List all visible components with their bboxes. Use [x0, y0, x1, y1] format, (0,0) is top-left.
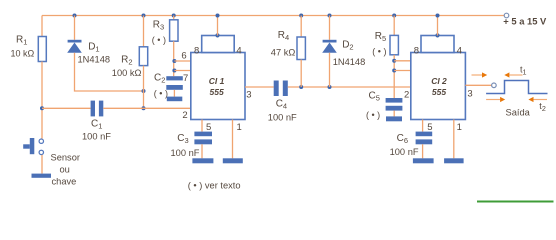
- capacitor C4: [274, 81, 279, 97]
- svg-text:6: 6: [181, 50, 186, 61]
- ground under switch: [32, 174, 52, 178]
- svg-text:100 nF: 100 nF: [390, 147, 419, 157]
- wire pin 5 CI1: [201, 120, 203, 132]
- switch S1 contact bottom: [39, 150, 43, 154]
- pin 8/4 bridge CI2: [421, 36, 454, 53]
- dimension arrow t1 left: [472, 74, 483, 76]
- wire R2 top lead: [143, 16, 145, 47]
- node +V terminal: [504, 13, 509, 18]
- svg-text:3: 3: [467, 89, 472, 100]
- svg-text:8: 8: [194, 46, 199, 57]
- resistor R5: [390, 35, 398, 54]
- dimension arrow t1 right: [504, 72, 509, 77]
- svg-text:( • ): ( • ): [154, 88, 168, 98]
- node junction R1/C1: [40, 106, 44, 110]
- wire pin 6 CI2: [394, 60, 411, 62]
- capacitor C1: [91, 101, 95, 117]
- node junction D1 top: [73, 14, 77, 18]
- svg-text:R3: R3: [153, 20, 164, 32]
- wire R5 bottom lead to C5: [393, 55, 395, 98]
- wire R2 bottom lead: [143, 66, 145, 109]
- wire C2 to ground: [173, 90, 175, 97]
- node junction R5 top: [392, 14, 396, 18]
- svg-text:CI 2: CI 2: [431, 76, 447, 86]
- svg-text:1N4148: 1N4148: [78, 55, 111, 65]
- dimension arrow t2 left: [486, 99, 500, 101]
- svg-text:( • ): ( • ): [366, 110, 380, 120]
- svg-text:100 nF: 100 nF: [268, 112, 297, 122]
- node junction pin7 CI1: [172, 69, 176, 73]
- svg-text:R2: R2: [121, 55, 132, 67]
- wire D2 top lead: [329, 16, 331, 40]
- svg-text:4: 4: [457, 46, 462, 57]
- wire rail to bridge CI2: [437, 16, 439, 36]
- svg-text:8: 8: [414, 46, 419, 57]
- wire C3 to ground: [201, 144, 203, 158]
- waveform output pulse: [486, 81, 547, 94]
- wire D2 bottom lead: [329, 53, 331, 87]
- svg-text:( • ): ( • ): [372, 46, 386, 56]
- svg-text:1: 1: [457, 122, 462, 133]
- switch S1 contact top: [39, 139, 43, 143]
- wire pin 6 CI1: [174, 60, 190, 62]
- wire trigger line to C1: [42, 107, 91, 109]
- op-amp CI2 555 body: [411, 53, 466, 120]
- wire pin 5 CI2: [422, 120, 424, 132]
- node junction D2 top: [328, 14, 332, 18]
- resistor R1: [38, 37, 46, 62]
- wire C5 to ground: [393, 111, 395, 117]
- svg-text:C4: C4: [276, 98, 287, 110]
- svg-text:CI 1: CI 1: [209, 76, 225, 86]
- diode D2: [323, 40, 337, 43]
- wire R1 bottom lead: [41, 62, 43, 139]
- resistor R3: [170, 20, 178, 41]
- dimension arrow t2 right: [528, 97, 533, 102]
- svg-text:D2: D2: [342, 39, 353, 51]
- svg-text:5: 5: [427, 122, 432, 133]
- svg-text:t2: t2: [539, 101, 546, 113]
- svg-text:4: 4: [236, 46, 241, 57]
- green separator line: [477, 201, 554, 203]
- svg-text:C2: C2: [154, 73, 165, 85]
- resistor R2: [139, 47, 147, 66]
- svg-text:47 kΩ: 47 kΩ: [271, 47, 296, 57]
- wire switch to ground: [41, 155, 43, 174]
- wire pin 7 CI1: [174, 70, 190, 72]
- svg-text:Sensor: Sensor: [51, 153, 80, 163]
- node junction pin6 CI2: [392, 59, 396, 63]
- node output terminal: [492, 83, 497, 88]
- svg-text:3: 3: [246, 89, 251, 100]
- svg-text:1N4148: 1N4148: [333, 57, 366, 67]
- wire pin 1 CI1: [232, 120, 234, 159]
- svg-text:C3: C3: [177, 133, 188, 145]
- node junction bridge CI1 top: [215, 33, 219, 37]
- ground under C3: [192, 158, 213, 163]
- wire pin 3 CI1: [245, 86, 274, 88]
- capacitor C6: [416, 132, 433, 137]
- svg-text:555: 555: [210, 87, 224, 97]
- switch S1 plunger: [30, 138, 35, 154]
- node junction D2 bottom: [328, 85, 332, 89]
- svg-text:D1: D1: [88, 42, 99, 54]
- svg-text:7: 7: [183, 73, 188, 84]
- node junction R4 bottom: [299, 85, 303, 89]
- svg-text:2: 2: [404, 90, 409, 101]
- wire D1 top lead: [74, 16, 76, 40]
- node junction R2/trigger line: [142, 106, 146, 110]
- svg-text:100 nF: 100 nF: [82, 131, 111, 141]
- ground under C5: [386, 116, 402, 121]
- node junction pin6 CI1: [172, 59, 176, 63]
- svg-text:555: 555: [432, 87, 446, 97]
- wire rail to bridge CI1: [217, 16, 219, 36]
- node junction R3 top: [172, 14, 176, 18]
- svg-text:R1: R1: [16, 35, 27, 47]
- wire D1 bottom lead: [75, 53, 144, 91]
- ground under pin 1 CI1: [223, 158, 243, 163]
- wire R4 bottom lead: [300, 60, 302, 88]
- svg-text:Saída: Saída: [506, 108, 531, 118]
- wire R1 top lead: [41, 16, 43, 37]
- wire R3 bottom lead to C2: [173, 41, 175, 76]
- svg-text:C5: C5: [369, 91, 380, 103]
- wire R3 top lead: [173, 16, 175, 20]
- wire C4 to pin 2 CI2: [288, 86, 411, 88]
- diode D1: [68, 40, 82, 43]
- op-amp CI1 555 body: [191, 53, 245, 120]
- svg-text:2: 2: [182, 110, 187, 121]
- ground under C6: [413, 158, 434, 163]
- ground under C2: [167, 97, 183, 102]
- svg-text:100 nF: 100 nF: [171, 148, 200, 158]
- svg-text:+ 5 a 15 V: + 5 a 15 V: [503, 16, 547, 27]
- node junction rail/bridge CI2: [436, 14, 440, 18]
- wire R4 top lead: [300, 16, 302, 38]
- svg-text:ou: ou: [60, 164, 70, 174]
- svg-text:( • ): ( • ): [152, 35, 166, 45]
- svg-text:10 kΩ: 10 kΩ: [11, 48, 35, 58]
- svg-text:100 kΩ: 100 kΩ: [112, 68, 142, 78]
- svg-text:C1: C1: [91, 118, 102, 130]
- capacitor C5: [386, 98, 403, 103]
- wire pin 1 CI2: [453, 120, 455, 159]
- svg-text:chave: chave: [52, 176, 77, 186]
- svg-text:1: 1: [237, 122, 242, 133]
- wire C1 to pin 2 CI1: [103, 107, 191, 109]
- svg-text:C6: C6: [397, 133, 408, 145]
- node junction D1/R2: [142, 89, 146, 93]
- resistor R4: [297, 37, 305, 60]
- node junction pin7 CI2: [392, 69, 396, 73]
- capacitor C3: [194, 132, 212, 137]
- ground under pin 1 CI2: [444, 158, 464, 163]
- pin 8/4 bridge CI1: [202, 36, 235, 53]
- wire top +V rail: [42, 15, 506, 17]
- svg-text:R4: R4: [278, 30, 289, 42]
- wire R5 top lead: [393, 16, 395, 36]
- svg-text:( • ) ver texto: ( • ) ver texto: [188, 180, 241, 190]
- wire pin 3 CI2 output: [465, 84, 491, 86]
- wire C6 to ground: [422, 144, 424, 158]
- node junction R4 top: [299, 14, 303, 18]
- wire pin 7 CI2: [394, 70, 411, 72]
- capacitor C2: [166, 76, 183, 80]
- svg-text:5: 5: [206, 122, 211, 133]
- node junction R2 top: [142, 14, 146, 18]
- node junction rail/bridge CI1: [216, 14, 220, 18]
- svg-text:R5: R5: [375, 31, 386, 43]
- node junction bridge CI2 top: [435, 33, 439, 37]
